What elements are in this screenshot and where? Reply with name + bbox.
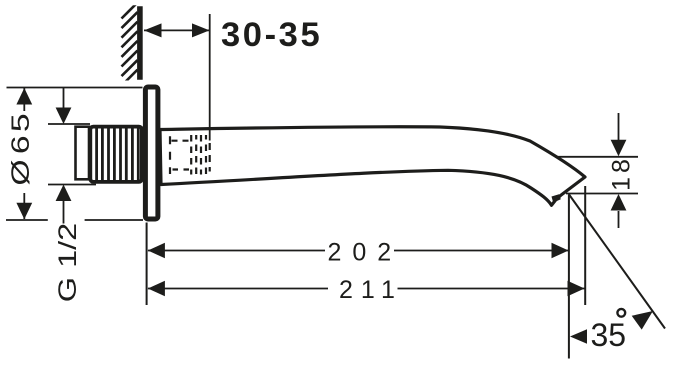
hidden thread dashed lines [191,135,206,175]
35 degree arrow on slant [632,311,653,330]
svg-text:35: 35 [591,317,627,353]
svg-text:5: 5 [7,113,35,132]
thread body [90,127,142,182]
escutcheon flange [145,87,158,219]
spout body [160,127,585,206]
dim 18 arrows [618,113,620,141]
svg-text:6: 6 [7,135,35,154]
svg-text:211: 211 [339,276,403,304]
dim 211 line [148,288,328,290]
wall hatch [122,3,138,86]
svg-text:202: 202 [328,239,403,267]
degree symbol [617,309,625,317]
dim Ø65 extension lines [7,87,143,89]
211 right extension line [584,186,586,305]
dim G1/2 arrows [63,88,65,110]
dim 30-35 extension line [209,14,211,141]
wall face line [137,6,143,80]
dim 18 extension lines [555,156,638,158]
dim G1/2 extension lines [48,123,90,125]
hidden inlet dashed outline [170,136,191,174]
svg-text:G 1/2: G 1/2 [54,223,82,302]
35 degree slanted line [569,194,665,329]
spout outlet nub [552,194,561,202]
35 degree arrow on vertical [570,329,587,344]
svg-text:Ø: Ø [7,159,35,185]
threaded pipe stub [76,127,90,180]
outlet vertical reference line [568,195,570,359]
svg-text:30-35: 30-35 [221,16,322,54]
dim 30-35 line [144,29,210,31]
thread lines [97,128,139,180]
dim 202/211 left extension line [146,223,148,306]
dim 202 line [148,250,325,252]
dim Ø65 line and arrows [23,88,25,111]
svg-text:18: 18 [608,155,636,191]
